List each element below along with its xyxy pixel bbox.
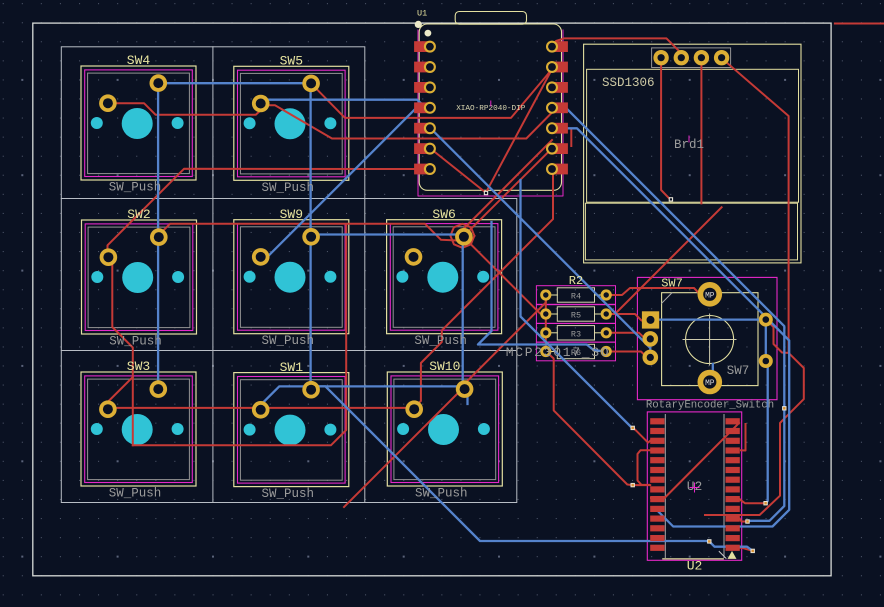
- wire B.Cu: through encoder: [652, 318, 766, 320]
- svg-text:SW7: SW7: [661, 277, 683, 291]
- wire F.Cu: DiagR2 lower: [344, 393, 459, 508]
- svg-text:SW_Push: SW_Push: [414, 334, 467, 348]
- via V5: [751, 549, 755, 553]
- wire F.Cu: SSD p1 down: [661, 65, 670, 199]
- svg-text:SW_Push: SW_Push: [262, 181, 315, 195]
- switch SW9 (SW_Push footprint): [234, 220, 349, 334]
- node N1: [484, 191, 488, 195]
- switch SW6 (SW_Push footprint): [387, 220, 502, 334]
- switch matrix cell grid row1: [61, 47, 365, 199]
- svg-text:SW1: SW1: [280, 360, 304, 375]
- svg-text:RotaryEncoder_Switch: RotaryEncoder_Switch: [646, 400, 774, 412]
- svg-text:SW_Push: SW_Push: [109, 335, 162, 349]
- module U1 XIAO-RP2040-DIP outline: [415, 12, 563, 197]
- wire F.Cu: R2.R4 to SW7 pin: [606, 352, 647, 358]
- wire F.Cu: row1: SW4.L-SW5.L-U1.R4: [108, 103, 552, 138]
- resistor group R2 outlines: [536, 286, 615, 361]
- wire F.Cu: DiagR1 U1.R7 down: [414, 175, 554, 408]
- switch SW4 pads and labels: [99, 53, 167, 194]
- wire F.Cu: U1.R5-R6 link: [570, 131, 572, 147]
- wire B.Cu: SW7 R1-R2 link: [765, 320, 767, 361]
- wire F.Cu: SW7.R1 right: [766, 320, 789, 353]
- via V6: [763, 501, 767, 505]
- via V3: [707, 539, 711, 543]
- wire F.Cu: via1 to U2.L3: [633, 427, 650, 442]
- svg-text:SW4: SW4: [127, 53, 151, 68]
- wire B.Cu: col3 vertical: [462, 236, 464, 389]
- switch SW5 (SW_Push footprint): [234, 66, 349, 180]
- svg-text:SW3: SW3: [127, 359, 150, 374]
- svg-text:SW_Push: SW_Push: [262, 334, 315, 348]
- wire F.Cu: SSD p4 long right side: [705, 60, 804, 515]
- switch SW4 (SW_Push footprint): [81, 66, 196, 180]
- wire F.Cu: row2: SW2.T to SW6.T: [158, 224, 457, 241]
- switch SW2 pads and labels: [100, 207, 168, 348]
- wire F.Cu: U1.R2 slant to node: [486, 67, 553, 192]
- wire F.Cu: SW2.L down chain: [108, 256, 133, 445]
- wire B.Cu: nest n2: [557, 108, 785, 521]
- wire B.Cu: n3: [557, 128, 790, 526]
- via V7: [782, 406, 786, 410]
- resistor group R2 pads and labels: [506, 274, 612, 360]
- wire F.Cu: DiagR2 upper: [463, 295, 546, 389]
- wire F.Cu: R2.R2 to SW7 pin: [606, 314, 644, 321]
- svg-text:SW9: SW9: [280, 207, 303, 222]
- wire F.Cu: U1.R6 diag to SW6.T: [464, 149, 552, 237]
- switch SW3 pads and labels: [99, 359, 167, 500]
- wire F.Cu: R2.L4 to via2 to U2: [546, 352, 650, 486]
- wire B.Cu: V520 diag to via1: [521, 180, 632, 427]
- wire F.Cu: second diag to SW6.T: [463, 140, 552, 233]
- wire F.Cu: U1.L7 long H to SW2.L: [108, 169, 431, 256]
- svg-text:SW2: SW2: [127, 207, 150, 222]
- wire F.Cu: U1.L6 diag to node: [431, 149, 485, 192]
- wire F.Cu: octagon wrap SW6.T: [450, 224, 474, 248]
- node N2: [669, 197, 673, 201]
- switch SW5 pads and labels: [252, 54, 320, 195]
- svg-text:SW10: SW10: [429, 359, 460, 374]
- switch SW9 pads and labels: [252, 207, 320, 348]
- wire F.Cu: SSD p3 down: [700, 65, 702, 203]
- wire F.Cu: U2 right side link: [741, 424, 746, 451]
- wire B.Cu: col2 vertical: [309, 83, 311, 386]
- wire B.Cu: B.Cu: [712, 364, 714, 391]
- svg-text:SW6: SW6: [432, 207, 455, 222]
- wire F.Cu: SW5.T-U1.R2: [311, 69, 551, 118]
- wire F.Cu: row3: SW3.L-SW1.L-SW10.L: [108, 407, 413, 409]
- via V4: [745, 519, 749, 523]
- wire B.Cu: SW5.L-U1.L4: [263, 100, 431, 108]
- wire B.Cu: SW1.L-SW10.T link: [260, 386, 468, 406]
- svg-text:U1: U1: [417, 9, 427, 19]
- wire B.Cu: SW9.T-SW6.T: [311, 235, 462, 236]
- switch SW6 pads and labels: [405, 207, 473, 348]
- via V2: [631, 483, 635, 487]
- wire B.Cu: U1.L5 long diag to SW7: [431, 128, 651, 357]
- wire F.Cu: diag D to R2.R2: [609, 207, 722, 314]
- rotary encoder SW7 outline: [637, 277, 777, 399]
- wire F.Cu: top-right stub: [835, 23, 884, 25]
- switch SW10 pads and labels: [405, 359, 473, 500]
- module U1 pads and labels: [414, 9, 568, 176]
- switch SW3 (SW_Push footprint): [81, 372, 196, 486]
- switch SW1 pads and labels: [252, 360, 320, 501]
- wire F.Cu: R2.R1 to MP pad: [606, 288, 700, 295]
- wire F.Cu: via to U2.R9: [740, 499, 766, 503]
- wire F.Cu: U2 diag pad1-pad9: [651, 423, 739, 498]
- wire B.Cu: SW1.T to U2 bottom: [312, 386, 753, 551]
- svg-text:SW_Push: SW_Push: [415, 487, 468, 501]
- svg-text:SW5: SW5: [280, 54, 303, 69]
- svg-text:U2: U2: [687, 559, 703, 574]
- via V1: [631, 426, 635, 430]
- switch SW10 (SW_Push footprint): [387, 372, 502, 486]
- wire F.Cu: U1.R1 to SSD pad2: [551, 38, 681, 56]
- svg-text:MP: MP: [705, 380, 715, 388]
- svg-text:R2: R2: [569, 274, 583, 288]
- display module Brd1 SSD1306 outline: [584, 44, 801, 263]
- wire F.Cu: via to U2.R14: [740, 548, 753, 551]
- switch SW1 (SW_Push footprint): [234, 373, 349, 487]
- svg-text:R3: R3: [571, 329, 581, 339]
- display module Brd1 pads and labels: [602, 50, 729, 152]
- wire F.Cu: R2.R3 to SW7 pin: [606, 333, 648, 339]
- switch SW2 (SW_Push footprint): [82, 220, 197, 334]
- svg-text:SSD1306: SSD1306: [602, 76, 655, 90]
- svg-text:MCP23017_SO: MCP23017_SO: [506, 345, 611, 360]
- wire B.Cu: SW4.T-SW5.T: [158, 82, 311, 84]
- svg-text:MP: MP: [705, 292, 715, 300]
- svg-text:SW_Push: SW_Push: [109, 487, 162, 501]
- wire F.Cu: via to U2.R11: [740, 519, 748, 522]
- wire F.Cu: R2 left pads link: [545, 295, 547, 352]
- wire B.Cu: nest v1: [766, 361, 768, 503]
- wire B.Cu: V491 to R2.R4: [478, 222, 605, 352]
- wire F.Cu: branch to SW3.L: [108, 377, 133, 408]
- wire F.Cu: SW6.T diag to R2.L2: [468, 242, 546, 314]
- rotary encoder SW7 pads and labels: [642, 277, 774, 412]
- IC U2 pads and labels: [650, 418, 740, 573]
- switch matrix cell grid rows2-3: [61, 199, 517, 503]
- svg-text:R4: R4: [571, 292, 581, 302]
- svg-text:SW_Push: SW_Push: [262, 487, 315, 501]
- IC U2 MCP23017 SOIC-28 outline: [647, 412, 741, 560]
- wire F.Cu: bottom shunt up right of SW9: [133, 224, 346, 445]
- svg-text:SW7: SW7: [727, 364, 750, 378]
- wire B.Cu: col1 vertical: [157, 83, 159, 387]
- wire F.Cu: U2 left loop: [638, 450, 651, 485]
- svg-text:R5: R5: [571, 311, 581, 321]
- svg-text:SW_Push: SW_Push: [109, 181, 162, 195]
- wire B.Cu: SW9.L diag to U1.L4: [259, 103, 431, 255]
